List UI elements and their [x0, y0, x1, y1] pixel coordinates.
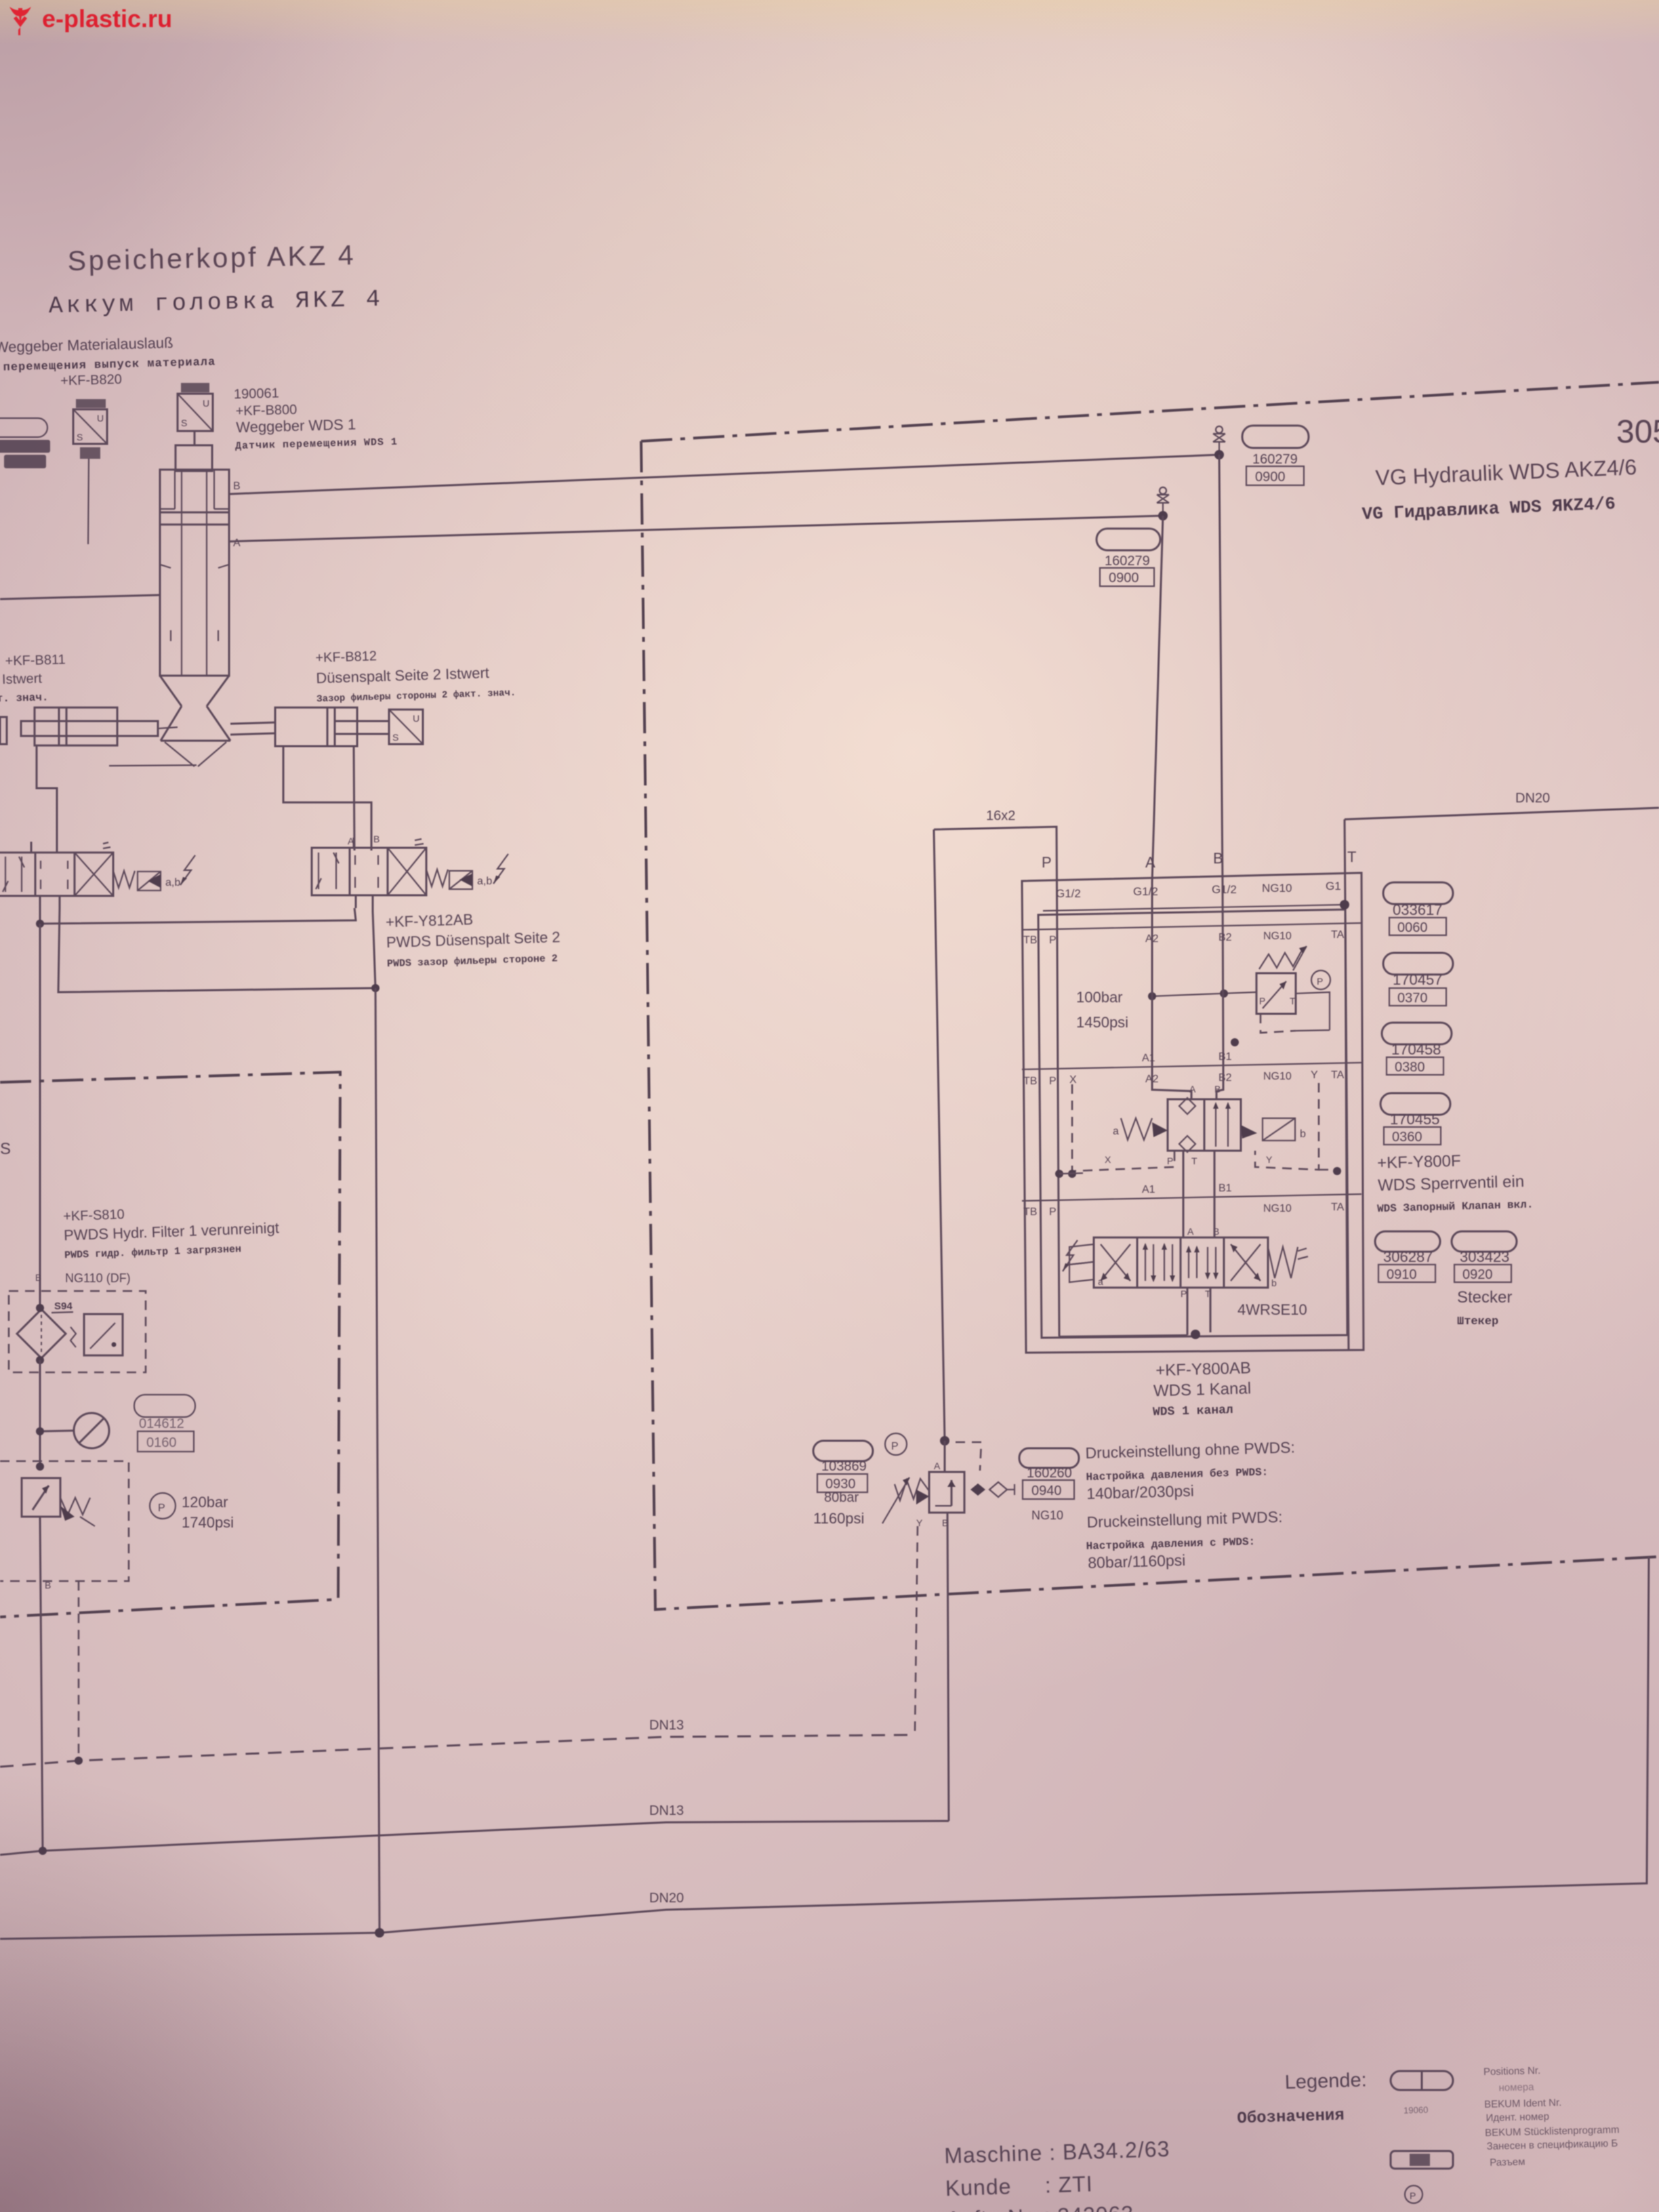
wire: rod link to nozzle [158, 727, 178, 729]
svg-text:0060: 0060 [1397, 920, 1428, 935]
svg-text:TA: TA [1331, 1069, 1345, 1081]
svg-text:1450psi: 1450psi [1076, 1014, 1128, 1031]
svg-text:NG10: NG10 [1031, 1509, 1063, 1522]
svg-text:a,b: a,b [165, 877, 180, 888]
svg-text:S: S [77, 432, 83, 443]
svg-text:TB: TB [1023, 935, 1037, 946]
svg-text:170455: 170455 [1390, 1111, 1439, 1128]
svg-text:TA: TA [1331, 929, 1345, 941]
wire: B812 cap-side port down-right [283, 746, 371, 851]
wire B2 to sperrventil [1216, 1067, 1223, 1099]
svg-text:NG10: NG10 [1263, 1203, 1292, 1214]
text Druckeinstellung mit PWDS [1085, 1508, 1284, 1572]
relief valve 100bar body [1256, 973, 1296, 1014]
svg-text:Druckeinstellung ohne PWDS:: Druckeinstellung ohne PWDS: [1085, 1438, 1295, 1462]
junction filter top [36, 1304, 44, 1312]
svg-text:VG Гидравлика WDS ЯKZ4/6: VG Гидравлика WDS ЯKZ4/6 [1361, 493, 1616, 525]
svg-text:a: a [1098, 1276, 1103, 1287]
label 190061 +KF-B800 Weggeber WDS 1 [234, 383, 398, 452]
relief valve 100bar: connection line [1152, 992, 1256, 996]
svg-text:Зазор фильеры стороны 2 факт.: Зазор фильеры стороны 2 факт. знач. [316, 688, 516, 705]
filter dashed enclosure [9, 1291, 146, 1372]
left edge label dark blob row 2 [4, 455, 46, 468]
right column label pill 170455/0360 [1380, 1093, 1450, 1115]
svg-text:PWDS зазор фильеры стороне 2: PWDS зазор фильеры стороне 2 [387, 953, 558, 970]
label pill 160260/0940 [1019, 1448, 1079, 1468]
wire: nozzle feed from B811 cylinder [109, 765, 197, 766]
svg-text:033617: 033617 [1393, 901, 1442, 918]
svg-text:WDS 1 Kanal: WDS 1 Kanal [1153, 1379, 1252, 1400]
svg-text:16x2: 16x2 [986, 808, 1015, 823]
svg-text:G1: G1 [1326, 880, 1341, 893]
svg-text:номера: номера [1498, 2081, 1534, 2093]
svg-text:+KF-B820: +KF-B820 [60, 372, 122, 388]
cylinder B811 body [35, 708, 117, 745]
svg-text:a,b: a,b [477, 876, 492, 887]
svg-text:T: T [1347, 848, 1356, 865]
wire: A line to right [229, 516, 1163, 541]
svg-text:80bar/1160psi: 80bar/1160psi [1088, 1551, 1186, 1572]
svg-text:P: P [891, 1441, 899, 1452]
svg-text:WDS Запорный Клапан вкл.: WDS Запорный Клапан вкл. [1377, 1199, 1534, 1215]
G1 drain line [1043, 905, 1343, 911]
svg-text:P: P [158, 1502, 165, 1514]
wire: P manifold line valves [40, 908, 356, 924]
svg-text:VG Hydraulik WDS AKZ4/6: VG Hydraulik WDS AKZ4/6 [1375, 455, 1637, 490]
sensor +KF-B800 (square with diagonal) [178, 394, 213, 431]
svg-text:+KF-Y800F: +KF-Y800F [1377, 1152, 1461, 1172]
cylinder B811 rod end plate [0, 717, 7, 744]
label pill 306287/0910 [1375, 1231, 1440, 1252]
wire: P line down from 16x2 to relief [940, 1436, 949, 1446]
svg-text:A1: A1 [1142, 1052, 1155, 1064]
label pill 014612 [134, 1395, 195, 1417]
svg-text:WDS 1 канал: WDS 1 канал [1153, 1404, 1233, 1419]
wire: relief valve down to DN13 [40, 1517, 43, 1851]
label +KF-B811 (cut at left) [0, 653, 66, 705]
sensor +KF-B820 dimension blob [76, 399, 106, 408]
wire: gauge stub [40, 1431, 74, 1431]
svg-text:Positions Nr.: Positions Nr. [1483, 2065, 1541, 2078]
svg-text:Maschine : BA34.2/63: Maschine : BA34.2/63 [944, 2137, 1170, 2168]
svg-text:Y: Y [1266, 1154, 1273, 1165]
svg-text:Auftr. Nr. : 342063: Auftr. Nr. : 342063 [946, 2201, 1134, 2212]
svg-text:Speicherkopf AKZ 4: Speicherkopf AKZ 4 [67, 239, 356, 276]
label pill 103869/0930 [813, 1441, 873, 1461]
svg-text:P: P [1317, 976, 1323, 987]
wire: relief Y dashed down to DN13 dashed [915, 1526, 918, 1735]
label +KF-Y800F WDS Sperrventil ein [1376, 1150, 1534, 1215]
svg-text:TB: TB [1023, 1076, 1037, 1087]
valve Y811 spring [113, 871, 135, 888]
svg-text:DN13: DN13 [649, 1803, 684, 1818]
cylinder rod lines [182, 471, 207, 676]
section divider row3 [1022, 1194, 1361, 1201]
svg-text:160279: 160279 [1252, 452, 1298, 467]
svg-text:NG10: NG10 [1263, 1071, 1292, 1082]
svg-text:100bar: 100bar [1076, 989, 1123, 1006]
row1 port labels TB P A2 B2 NG10 TA [1023, 929, 1345, 946]
svg-text:0910: 0910 [1387, 1267, 1417, 1282]
DN13 solid line [0, 1821, 949, 1855]
svg-text:Настройка давления без PWDS:: Настройка давления без PWDS: [1086, 1466, 1268, 1483]
pilot Y dashed [1255, 1083, 1319, 1170]
wire sperrventil P down [1183, 1151, 1214, 1200]
svg-text:Weggeber Materialauslauß: Weggeber Materialauslauß [0, 334, 173, 356]
svg-text:303423: 303423 [1460, 1248, 1509, 1265]
svg-text:Занесен в спецификацию Б: Занесен в спецификацию Б [1486, 2137, 1618, 2152]
right column label pill 170458/0380 [1382, 1023, 1452, 1044]
label pill 303423/0920 [1452, 1231, 1517, 1252]
label +KF-S810 PWDS Hydr. Filter 1 verunreinigt [63, 1202, 280, 1261]
junction gauge [36, 1427, 44, 1435]
cylinder funnel lower flare [161, 706, 230, 741]
pilot dashes at top [956, 1442, 981, 1471]
svg-text:T: T [1191, 1155, 1197, 1166]
svg-text:a: a [1113, 1126, 1119, 1137]
sperrventil X P T Y labels [1105, 1154, 1273, 1166]
sperrventil body (pilot check valves) [1168, 1098, 1241, 1152]
circled P gauge port [1311, 970, 1330, 989]
circled P bottom relief [885, 1433, 907, 1455]
svg-text:X: X [1069, 1074, 1077, 1086]
svg-text:B: B [1214, 1084, 1221, 1094]
svg-text:Druckeinstellung mit PWDS:: Druckeinstellung mit PWDS: [1086, 1508, 1282, 1531]
label +KF-Y800AB WDS 1 Kanal [1151, 1359, 1252, 1419]
cylinder B811 piston [59, 708, 66, 745]
right column label pill 170457/0370 [1383, 953, 1453, 975]
wire: valve Y812 T down [373, 912, 375, 988]
svg-text:G1/2: G1/2 [1133, 885, 1158, 898]
svg-text:0380: 0380 [1395, 1060, 1425, 1075]
svg-text:B: B [233, 480, 241, 492]
svg-text:P: P [1259, 996, 1265, 1006]
wire: tank line down to DN20 [375, 988, 380, 1933]
svg-text:1 Istwert: 1 Istwert [0, 671, 43, 687]
pressure switch S810 [70, 1314, 123, 1355]
svg-text:120bar: 120bar [182, 1494, 228, 1511]
text Druckeinstellung ohne PWDS [1085, 1438, 1296, 1502]
svg-text:0360: 0360 [1392, 1130, 1422, 1145]
svg-text:X: X [1105, 1154, 1111, 1165]
cylinder piston [160, 512, 229, 525]
cylinder B812 rod right [335, 721, 389, 734]
relief valve 100bar spring [1259, 951, 1301, 969]
svg-text:P: P [1049, 935, 1057, 946]
svg-text:P: P [1167, 1155, 1173, 1166]
svg-text:80bar: 80bar [824, 1490, 859, 1505]
svg-text:Legende:: Legende: [1284, 2069, 1367, 2093]
cylinder B811 rod [21, 721, 158, 736]
valve +KF-Y812AB body [312, 848, 426, 895]
svg-text:Разъем: Разъем [1490, 2156, 1525, 2169]
svg-text:TA: TA [1331, 1202, 1345, 1213]
G1/2 G1/2 G1/2 NG10 G1 labels [1056, 880, 1341, 900]
sensor +KF-B820 lower blob [80, 447, 100, 459]
relief valve 80bar black triangle [916, 1490, 929, 1504]
A2/B2 verticals row1 [1152, 882, 1223, 1067]
svg-text:PWDS Düsenspalt Seite 2: PWDS Düsenspalt Seite 2 [386, 928, 560, 951]
prop valve 4WRSE10 body [1094, 1237, 1268, 1288]
svg-text:b: b [1271, 1277, 1277, 1288]
svg-text:B: B [1213, 850, 1223, 867]
legend pill symbol 2 [1391, 2151, 1453, 2169]
label 120bar 1740psi with circled P [150, 1493, 176, 1519]
valve Y812 lightning [493, 854, 508, 884]
svg-text:e-plastic.ru: e-plastic.ru [42, 5, 172, 33]
filter (diamond) [17, 1309, 66, 1358]
junction P to X tick [1055, 1170, 1063, 1178]
svg-text:0920: 0920 [1462, 1267, 1493, 1282]
svg-text:Weggeber WDS 1: Weggeber WDS 1 [236, 415, 356, 436]
svg-text:160260: 160260 [1027, 1466, 1072, 1481]
svg-text:+KF-Y812AB: +KF-Y812AB [386, 911, 474, 930]
valve Y811 II mark [103, 842, 110, 848]
svg-text:014612: 014612 [139, 1416, 184, 1431]
svg-text:U: U [97, 413, 104, 424]
svg-text:BEKUM Ident Nr.: BEKUM Ident Nr. [1484, 2097, 1562, 2110]
valve Y812 spring [426, 869, 448, 886]
cylinder B812 piston [327, 708, 335, 746]
svg-text:P: P [1181, 1288, 1187, 1299]
svg-text:P: P [1042, 854, 1052, 871]
svg-text:P: P [1049, 1076, 1057, 1087]
svg-text:NG110 (DF): NG110 (DF) [65, 1271, 131, 1285]
tank channel DN20 top line [1345, 808, 1659, 819]
valve block inner rect [1038, 909, 1347, 1338]
svg-text:Настройка давления с PWDS:: Настройка давления с PWDS: [1086, 1536, 1255, 1553]
wire: relief B down to DN13 [947, 1513, 949, 1821]
tank channel vertical [1345, 819, 1349, 1350]
svg-text:S: S [181, 417, 187, 428]
svg-text:кт. знач.: кт. знач. [0, 691, 49, 705]
svg-text:0160: 0160 [146, 1435, 177, 1450]
svg-text:Идент. номер: Идент. номер [1486, 2111, 1549, 2124]
svg-text:Штекер: Штекер [1457, 1315, 1498, 1328]
svg-text:NG10: NG10 [1263, 930, 1292, 942]
svg-text:BEKUM Stücklistenprogramm: BEKUM Stücklistenprogramm [1485, 2124, 1620, 2139]
legend right column small text [1483, 2063, 1620, 2169]
sperrventil solenoid b [1241, 1118, 1295, 1141]
valve Y811 lightning [180, 855, 195, 885]
svg-text:B1: B1 [1218, 1051, 1232, 1063]
svg-text:305: 305 [1616, 414, 1659, 450]
valve Y811 solenoid [138, 872, 161, 890]
wire: left port line of cylinder [0, 595, 160, 599]
svg-text:DN20: DN20 [649, 1891, 684, 1906]
svg-text:P: P [1049, 1206, 1057, 1218]
junction T bottom [1191, 1330, 1200, 1339]
valve Y812 II mark [415, 839, 424, 845]
P supply channel 16x2 [934, 827, 1059, 1441]
svg-text:+KF-B812: +KF-B812 [315, 649, 377, 665]
label +KF-B812 Duesenspalt Seite 2 Istwert [315, 644, 516, 705]
wire: vertical A to valve block [1152, 516, 1163, 882]
check valves right of relief [970, 1482, 1015, 1497]
wire: vertical B to valve block [1219, 455, 1223, 882]
svg-text:0900: 0900 [1255, 470, 1286, 485]
wire: filter to lower section [39, 1360, 41, 1467]
wire: T manifold line valves [58, 908, 375, 992]
wire A2 to sperrventil [1152, 1067, 1191, 1099]
row2 port labels [1023, 1069, 1345, 1087]
sperrventil spring a [1121, 1118, 1152, 1140]
valve Y812 solenoid [449, 871, 472, 889]
test point B (symbol + junction) [1213, 426, 1225, 455]
svg-text:0370: 0370 [1397, 991, 1428, 1006]
svg-text:A1: A1 [1142, 1184, 1155, 1195]
svg-text:U: U [203, 398, 209, 409]
svg-text:170458: 170458 [1391, 1041, 1441, 1058]
label pill 160279/0900 upper [1242, 426, 1309, 448]
junction P line left [36, 920, 44, 928]
row3 port labels [1023, 1202, 1345, 1218]
wire: dashed pilot down from relief box [78, 1581, 80, 1761]
svg-text:170457: 170457 [1393, 971, 1442, 988]
svg-text:TB: TB [1023, 1206, 1037, 1218]
label +KF-Y812AB PWDS Duesenspalt Seite 2 [386, 908, 561, 970]
DN20 line [0, 1557, 1649, 1939]
test point A (symbol + junction) [1157, 487, 1169, 516]
watermark logo e-plastic.ru [9, 7, 31, 35]
legend circled P [1405, 2186, 1422, 2203]
svg-text:Y: Y [1311, 1069, 1318, 1081]
svg-text:103869: 103869 [821, 1459, 867, 1474]
svg-text:Düsenspalt Seite 2 Istwert: Düsenspalt Seite 2 Istwert [316, 664, 489, 687]
svg-text:1740psi: 1740psi [182, 1514, 234, 1531]
wire: nozzle link to cylinder B812 [230, 722, 275, 735]
svg-text:0900: 0900 [1109, 571, 1139, 586]
svg-text:B: B [35, 1272, 41, 1283]
wire: B800 stem to cylinder [194, 431, 196, 445]
svg-text:B: B [45, 1580, 51, 1591]
svg-text:+KF-S810: +KF-S810 [63, 1207, 125, 1224]
wire: B811 piston-side port down [37, 745, 57, 853]
relief out to TA [1296, 992, 1330, 1031]
PWDS dash-dot boundary box (left) [0, 1072, 340, 1617]
svg-text:Датчик перемещения WDS 1: Датчик перемещения WDS 1 [235, 436, 398, 452]
relief valve 80bar spring [895, 1479, 929, 1500]
junction T line [371, 984, 380, 992]
wire: B820 stem down [88, 459, 89, 544]
sensor +KF-B812 (square with diagonal) [389, 710, 423, 744]
svg-text:0940: 0940 [1031, 1483, 1062, 1498]
machine data block [944, 2137, 1172, 2212]
nozzle tip [165, 742, 226, 766]
relief valve 80bar prop arrow [882, 1477, 909, 1523]
pilot X dashed [1072, 1084, 1174, 1171]
prop valve left solenoid with lightning [1063, 1240, 1103, 1287]
valve +KF-Y811AB body [0, 853, 113, 896]
legend block [1235, 2068, 1429, 2129]
svg-text:S: S [392, 732, 398, 743]
junction G1 to tank channel [1340, 900, 1349, 909]
relief valve S-section dashed enclosure [0, 1461, 129, 1581]
svg-text:A: A [233, 537, 241, 549]
svg-text:+KF-B800: +KF-B800 [235, 403, 297, 419]
svg-text:DN20: DN20 [1515, 791, 1550, 806]
svg-text:B1: B1 [1218, 1183, 1232, 1194]
svg-text:A: A [1145, 854, 1155, 871]
svg-text:306287: 306287 [1383, 1248, 1433, 1265]
junction filter bottom [36, 1356, 44, 1364]
svg-text:0930: 0930 [825, 1477, 856, 1492]
svg-text:A: A [934, 1460, 941, 1471]
svg-text:U: U [413, 713, 419, 724]
sensor +KF-B800 hatch blob [181, 383, 209, 392]
svg-text:B: B [373, 834, 380, 844]
valve block outer rect [1022, 873, 1364, 1353]
svg-text:G1/2: G1/2 [1212, 883, 1237, 896]
valve Y811 ports ticks [31, 842, 60, 908]
WDS dash-dot boundary box (big) [641, 382, 1659, 1610]
right column label pill 033617/0060 [1383, 882, 1453, 904]
gauge (crossed circle) [74, 1413, 109, 1448]
svg-text:DN13: DN13 [649, 1718, 684, 1733]
sensor +KF-B820 (square with diagonal, U/S) [73, 409, 107, 444]
svg-text:S94: S94 [54, 1300, 73, 1312]
svg-text:P: P [1410, 2190, 1416, 2201]
svg-text:T: T [1290, 996, 1296, 1006]
accumulator head cylinder: top cap [176, 445, 212, 471]
wire: P line down to filter [39, 924, 41, 1308]
DN13 dashed line [0, 1735, 915, 1767]
svg-text:B2: B2 [1218, 1072, 1232, 1084]
wire to prop valve A B [1183, 1200, 1214, 1237]
wire: B line to right [229, 455, 1219, 494]
svg-text:160279: 160279 [1105, 554, 1150, 569]
svg-text:Stecker: Stecker [1457, 1288, 1512, 1307]
svg-text:A: A [1187, 1226, 1194, 1237]
junction relief top [36, 1462, 44, 1471]
svg-text:+KF-Y800AB: +KF-Y800AB [1155, 1359, 1251, 1380]
relief valve (square with arrow) [22, 1478, 95, 1526]
svg-text:b: b [1300, 1128, 1306, 1140]
svg-text:NG10: NG10 [1262, 882, 1292, 895]
svg-text:B2: B2 [1218, 932, 1232, 943]
left edge label dark blob row 1 [0, 440, 50, 453]
accumulator head cylinder: body [160, 470, 229, 676]
svg-text:190061: 190061 [234, 386, 279, 402]
section divider row1 top [1022, 923, 1361, 930]
cylinder funnel upper [160, 676, 229, 706]
cylinder B812 body [275, 708, 357, 746]
section divider row2 [1022, 1063, 1361, 1069]
label Weggeber Materialauslauf (+KF-B820) [0, 333, 216, 390]
cylinder shoulder lines [160, 470, 229, 509]
wire P channel into block [1059, 1335, 1187, 1336]
legend pill symbol 1 [1391, 2071, 1453, 2090]
wire prop valve P T down [1187, 1288, 1210, 1335]
left edge label pill (cut) [0, 418, 47, 437]
svg-text:+KF-B811: +KF-B811 [5, 653, 66, 669]
svg-text:PWDS гидр. фильтр 1 загрязнен: PWDS гидр. фильтр 1 загрязнен [64, 1244, 241, 1261]
cylinder mid ticks [160, 565, 229, 641]
svg-text:19060: 19060 [1404, 2105, 1429, 2116]
wire: B812 rod-side straight down [354, 746, 354, 851]
prop valve right spring [1268, 1247, 1308, 1288]
svg-text:1160psi: 1160psi [813, 1510, 864, 1527]
svg-text:WDS Sperrventil ein: WDS Sperrventil ein [1378, 1172, 1525, 1195]
svg-text:Аккум головка ЯKZ 4: Аккум головка ЯKZ 4 [48, 286, 384, 320]
valve Y812 ports ticks [354, 838, 373, 912]
svg-text:S: S [0, 1140, 11, 1158]
svg-text:140bar/2030psi: 140bar/2030psi [1086, 1482, 1194, 1502]
relief drain dashed [1261, 1014, 1296, 1033]
svg-text:Kunde : ZTI: Kunde : ZTI [945, 2171, 1093, 2200]
svg-text:A: A [348, 836, 354, 846]
svg-text:4WRSE10: 4WRSE10 [1237, 1301, 1307, 1318]
